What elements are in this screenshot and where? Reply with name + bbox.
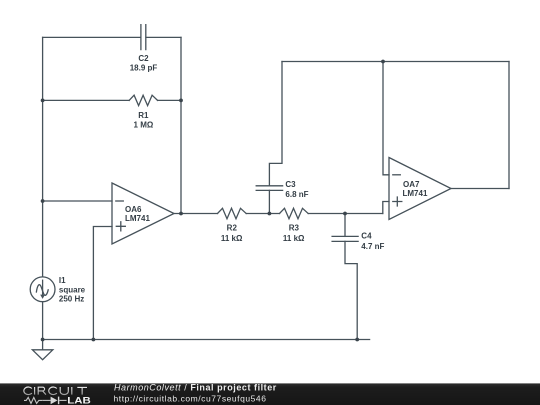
resistor R1 zigzag — [129, 95, 158, 105]
svg-text:LM741: LM741 — [403, 189, 428, 198]
wire top right loop — [282, 61, 509, 63]
ground symbol stub — [42, 340, 44, 350]
svg-text:R3: R3 — [289, 224, 300, 233]
svg-text:C3: C3 — [285, 180, 296, 189]
svg-text:250 Hz: 250 Hz — [59, 295, 84, 304]
svg-text:R2: R2 — [227, 224, 238, 233]
wire R1 row right — [158, 99, 181, 101]
wire R3 to OA7 plus branch — [308, 213, 383, 215]
svg-text:6.8 nF: 6.8 nF — [285, 190, 308, 199]
svg-text:C4: C4 — [361, 232, 372, 241]
wire I1 bottom to ground rail — [42, 302, 44, 340]
wire C3 upper lead with jog — [269, 62, 282, 186]
op-amp OA6 plus symbol — [116, 222, 125, 231]
wire OA6 output to R2 — [174, 213, 218, 215]
svg-text:11 kΩ: 11 kΩ — [221, 234, 243, 243]
wire R2 to R3 — [246, 213, 279, 215]
svg-text:LM741: LM741 — [125, 214, 150, 223]
wire OA7 inverting branch — [383, 62, 389, 175]
svg-text:R1: R1 — [138, 111, 149, 120]
wire OA7 non-inverting branch — [383, 202, 389, 214]
wire C3 lower lead — [268, 190, 270, 213]
current source I1 arrow — [42, 280, 44, 295]
svg-text:OA7: OA7 — [403, 180, 420, 189]
node junction dot ground rail OA6 plus — [92, 338, 96, 342]
node junction dot ground rail left — [41, 338, 45, 342]
svg-text:square: square — [59, 285, 86, 294]
capacitor C2 plates — [141, 25, 146, 50]
wire OA6 non-inverting input — [93, 227, 112, 340]
svg-text:11 kΩ: 11 kΩ — [283, 234, 305, 243]
wire right vertical of feedback loop — [180, 37, 182, 213]
logo resistor zigzag — [24, 397, 42, 403]
wire top feedback left segment — [43, 36, 141, 38]
node junction dot ground rail C4 — [355, 338, 359, 342]
capacitor C3 plates — [256, 186, 282, 191]
svg-text:C2: C2 — [138, 54, 149, 63]
current source I1 arrowhead — [40, 295, 45, 299]
wire C4 lower lead with jog to ground rail — [345, 241, 357, 339]
svg-text:I1: I1 — [59, 276, 66, 285]
svg-text:http://circuitlab.com/cu77seuf: http://circuitlab.com/cu77seufqu546 — [114, 394, 267, 404]
current source I1 circle — [30, 277, 55, 302]
wire top feedback right segment — [146, 36, 181, 38]
op-amp OA6 triangle — [112, 183, 174, 244]
wire right vertical of OA7 loop — [508, 62, 510, 189]
op-amp OA7 minus symbol — [393, 174, 401, 176]
op-amp OA7 plus symbol — [393, 197, 402, 206]
ground symbol triangle — [32, 350, 52, 360]
resistor R3 zigzag — [280, 208, 309, 218]
node junction dot R1 left — [41, 99, 45, 103]
node junction dot top wire OA7 feedback — [381, 60, 385, 64]
logo diode symbol — [42, 399, 50, 401]
current source I1 waveform squiggle — [36, 285, 48, 296]
wire left vertical (top wire down to I1) — [42, 37, 44, 277]
wire OA6 inverting input — [43, 200, 112, 202]
node junction dot OA6 output — [179, 212, 183, 216]
node junction dot C3/R2/R3 — [268, 212, 272, 216]
svg-text:1 MΩ: 1 MΩ — [134, 120, 154, 129]
wire bottom ground rail — [43, 339, 370, 341]
node junction dot R1 right — [179, 99, 183, 103]
wire R1 row left — [43, 99, 130, 101]
op-amp OA7 triangle — [389, 158, 451, 220]
capacitor C4 plates — [332, 236, 358, 241]
svg-text:4.7 nF: 4.7 nF — [361, 242, 384, 251]
svg-text:LAB: LAB — [67, 395, 91, 405]
node junction dot OA6 minus row — [41, 199, 45, 203]
wire OA7 output — [451, 188, 509, 190]
svg-text:18.9 pF: 18.9 pF — [130, 64, 158, 73]
node junction dot C4 top — [343, 212, 347, 216]
wire C4 upper lead — [344, 214, 346, 237]
svg-text:HarmonColvett / Final project: HarmonColvett / Final project filter — [114, 382, 277, 392]
logo CIRCUIT wordmark — [24, 387, 87, 395]
op-amp OA6 minus symbol — [116, 200, 124, 202]
svg-text:OA6: OA6 — [125, 205, 142, 214]
resistor R2 zigzag — [218, 208, 247, 218]
